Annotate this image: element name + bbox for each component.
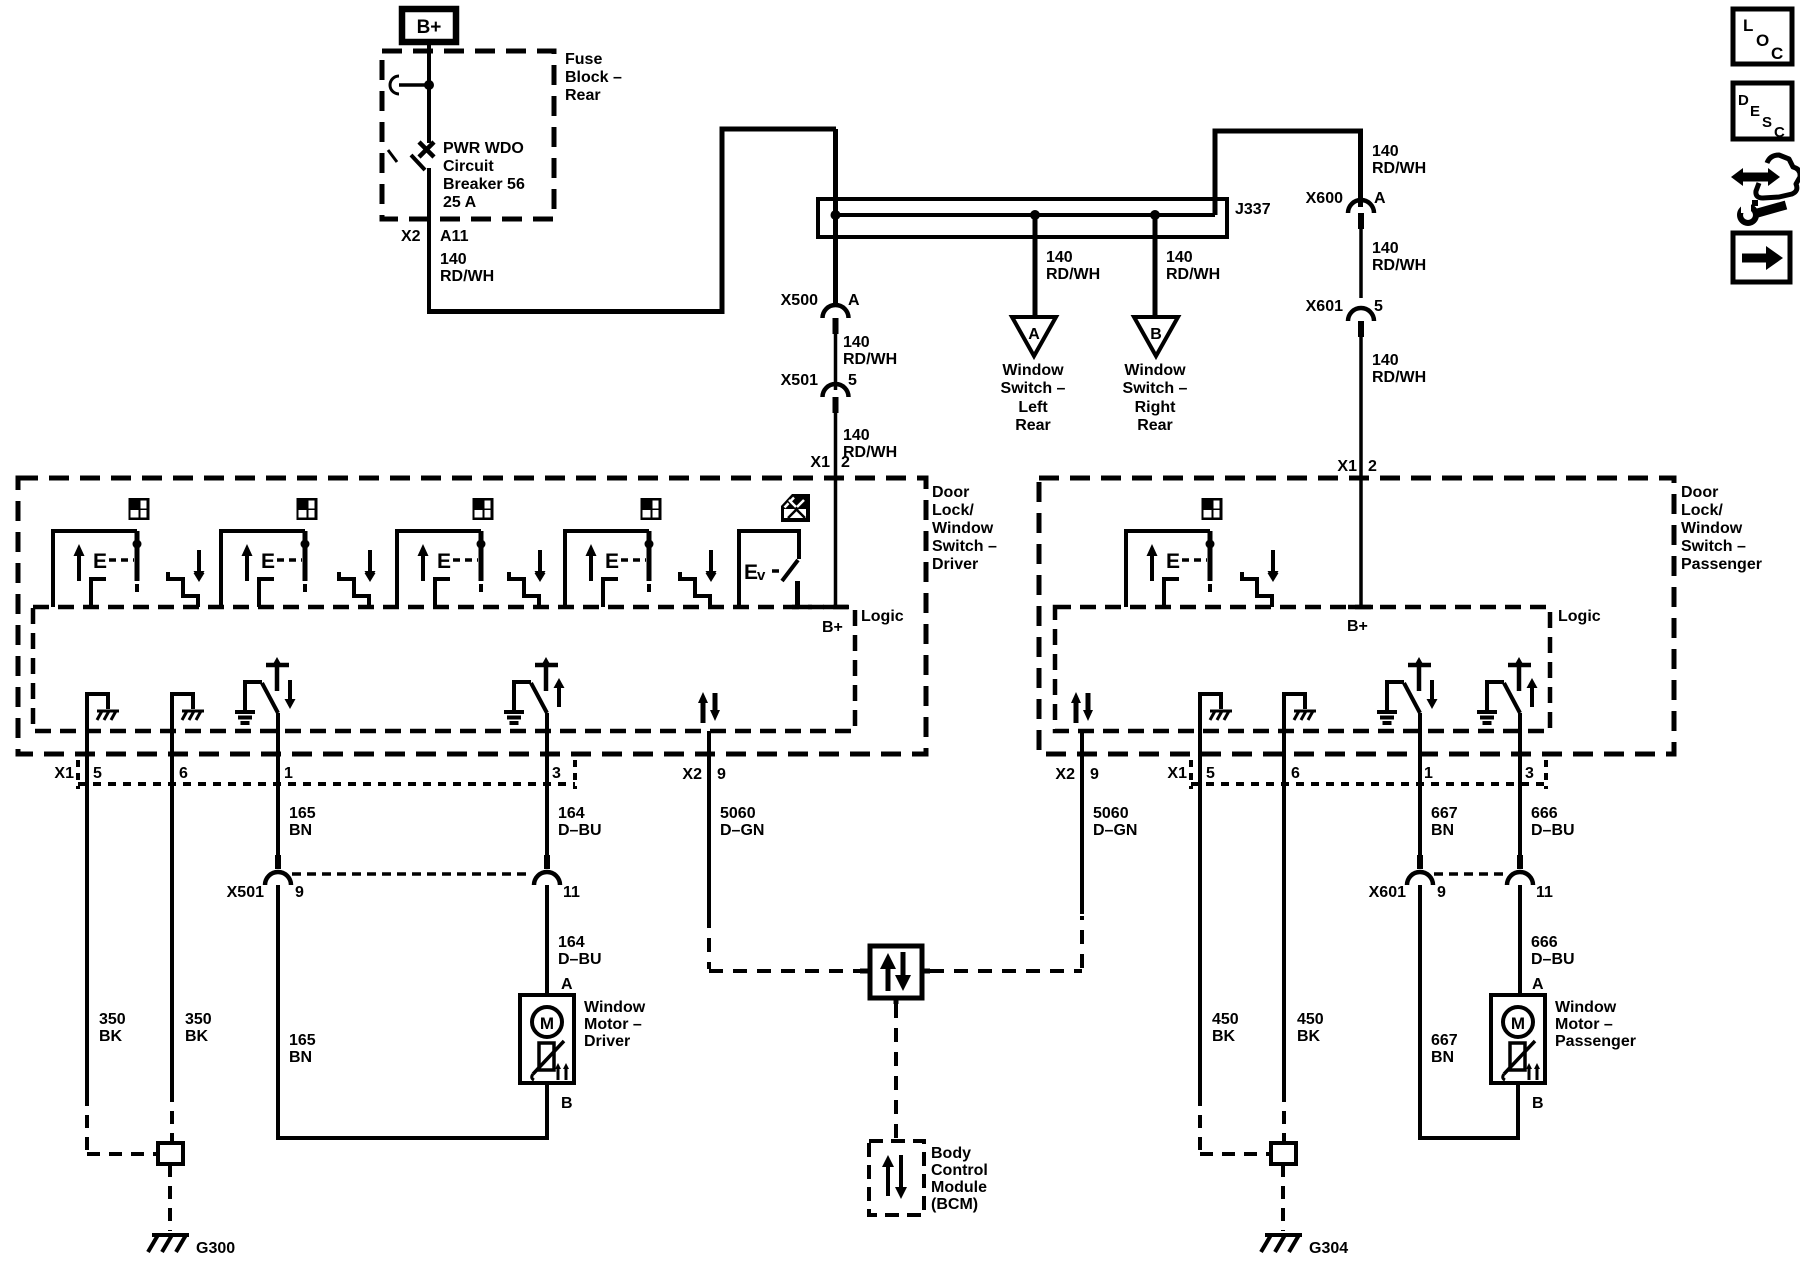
svg-text:Passenger: Passenger — [1555, 1033, 1636, 1050]
wire label 140 RD/WH (into passenger switch) — [1372, 352, 1426, 386]
LOC nav icon box — [1733, 9, 1792, 64]
svg-text:140: 140 — [1046, 249, 1073, 266]
svg-text:X500: X500 — [781, 292, 818, 309]
up arrow (passenger pin 3 switch) — [1527, 678, 1538, 707]
svg-text:RD/WH: RD/WH — [1166, 266, 1220, 283]
down arrow 2 — [365, 552, 376, 581]
connector X500 inline symbol — [823, 305, 849, 334]
svg-text:666: 666 — [1531, 805, 1558, 822]
svg-text:165: 165 — [289, 805, 316, 822]
svg-text:5: 5 — [93, 765, 102, 782]
window down contact 2 — [339, 550, 376, 607]
battery feed B+ terminal — [402, 9, 456, 42]
window down switch contact (driver pin 1) — [235, 657, 289, 723]
wire drop into splice pack — [833, 129, 838, 217]
svg-text:X1: X1 — [1337, 458, 1357, 475]
wire label 140 RD/WH (drop A) — [1046, 249, 1100, 283]
wire 350 BK dashed drop (driver pin5) — [87, 1093, 158, 1154]
svg-text:BK: BK — [1212, 1028, 1236, 1045]
window up switch contact (passenger pin 3) — [1477, 657, 1531, 723]
wire drop to window switch left rear — [1033, 215, 1038, 317]
svg-text:Rear: Rear — [1015, 417, 1051, 434]
serial data arrows (passenger logic) — [1071, 692, 1093, 723]
down arrow 3 — [535, 552, 546, 581]
svg-text:164: 164 — [558, 805, 585, 822]
window down contact 1 — [168, 550, 205, 607]
svg-text:X2: X2 — [401, 228, 421, 245]
page forward nav icon box — [1733, 233, 1790, 282]
svg-text:Door: Door — [1681, 484, 1718, 501]
junction dot left — [831, 210, 841, 220]
svg-text:140: 140 — [1166, 249, 1193, 266]
wire label 667 BN (upper) — [1431, 805, 1458, 839]
svg-text:11: 11 — [1536, 884, 1553, 901]
svg-text:666: 666 — [1531, 934, 1558, 951]
down arrow 1 — [194, 552, 205, 581]
svg-text:3: 3 — [1525, 765, 1534, 782]
svg-text:X600: X600 — [1306, 190, 1343, 207]
wire label 450 BK (pin6) — [1297, 1011, 1324, 1045]
svg-text:2: 2 — [1368, 458, 1377, 475]
svg-text:164: 164 — [558, 934, 585, 951]
window motor driver — [520, 995, 574, 1083]
ground G300 — [148, 1235, 189, 1252]
svg-text:D: D — [1738, 92, 1749, 109]
wire label 5060 D-GN (passenger) — [1093, 805, 1137, 839]
svg-text:1: 1 — [284, 765, 293, 782]
DESC nav icon box — [1733, 83, 1792, 141]
svg-text:X501: X501 — [227, 884, 264, 901]
wire label 140 RD/WH (into driver switch) — [843, 427, 897, 461]
serial data junction box — [860, 946, 930, 1004]
svg-text:2: 2 — [841, 454, 850, 471]
window icon passenger — [1202, 498, 1223, 520]
svg-text:Control: Control — [931, 1162, 988, 1179]
svg-text:Switch –: Switch – — [1681, 538, 1746, 555]
lock switch cell — [739, 531, 812, 607]
svg-text:Door: Door — [932, 484, 969, 501]
window up switch cell 1 — [53, 531, 142, 607]
wire 450 BK pin 5 (passenger) — [1198, 731, 1202, 1093]
connector X601 dashed tie — [1434, 872, 1505, 876]
svg-text:350: 350 — [185, 1011, 212, 1028]
svg-text:RD/WH: RD/WH — [843, 351, 897, 368]
svg-text:Fuse: Fuse — [565, 51, 602, 68]
svg-text:B: B — [1150, 326, 1162, 343]
svg-text:Block –: Block – — [565, 69, 622, 86]
wire label 140 RD/WH (fuse output) — [440, 251, 494, 285]
window icon 4 — [641, 498, 662, 520]
window up switch contact (driver pin 3) — [504, 657, 558, 723]
svg-text:D–GN: D–GN — [1093, 822, 1137, 839]
window down switch contact (passenger pin 1) — [1377, 657, 1431, 723]
svg-text:E: E — [744, 561, 758, 584]
svg-text:Passenger: Passenger — [1681, 556, 1762, 573]
wire label 140 RD/WH (drop B) — [1166, 249, 1220, 283]
wire 450 BK dashed drop (passenger pin5) — [1200, 1093, 1271, 1154]
svg-text:E: E — [1750, 103, 1760, 120]
label Door Lock/Window Switch - Driver — [932, 484, 997, 573]
window motor passenger — [1491, 995, 1545, 1083]
svg-text:B: B — [1532, 1095, 1544, 1112]
connector X501 inline symbol pin 9 — [265, 855, 291, 885]
connector X1 dotted outline (driver bottom) — [78, 760, 575, 789]
svg-text:BN: BN — [1431, 822, 1454, 839]
svg-text:5: 5 — [1374, 298, 1383, 315]
svg-text:J337: J337 — [1235, 201, 1271, 218]
svg-text:S: S — [1762, 114, 1772, 131]
svg-text:140: 140 — [440, 251, 467, 268]
door lock/window switch passenger dashed enclosure — [1039, 478, 1674, 754]
wire 350 BK pin 5 (driver) — [85, 731, 89, 1093]
window up switch cell 3 — [397, 531, 486, 607]
down arrow (driver pin 1 switch) — [285, 680, 296, 709]
wire label 667 BN (lower) — [1431, 1032, 1458, 1066]
wire label 666 D-BU (lower) — [1531, 934, 1575, 968]
door lock/window switch driver dashed enclosure — [18, 478, 926, 754]
svg-text:B+: B+ — [1347, 618, 1368, 635]
B+ terminal foot (driver logic) — [823, 605, 848, 610]
label Window Switch - Right Rear — [1123, 362, 1188, 434]
svg-text:5: 5 — [1206, 765, 1215, 782]
diagnostic nav icon (arrows and wrench) — [1731, 155, 1800, 223]
svg-text:PWR WDO: PWR WDO — [443, 140, 524, 157]
window icon 2 — [297, 498, 318, 520]
svg-text:Lock/: Lock/ — [932, 502, 974, 519]
wire B+ to breaker — [427, 45, 431, 143]
svg-text:Lock/: Lock/ — [1681, 502, 1723, 519]
svg-text:C: C — [1774, 124, 1785, 141]
wire drop to window switch right rear — [1153, 215, 1158, 317]
wire feed run to J337 — [427, 129, 836, 312]
svg-text:C: C — [1771, 44, 1783, 63]
svg-text:Logic: Logic — [1558, 608, 1601, 625]
off-page connector A — [1012, 317, 1056, 356]
svg-text:X2: X2 — [682, 766, 702, 783]
logic block driver dashed box — [33, 607, 855, 731]
wire label 140 RD/WH (right feed top) — [1372, 143, 1426, 177]
junction dot right — [1150, 210, 1160, 220]
wire label 164 D-BU (upper) — [558, 805, 602, 839]
wire label 350 BK (pin6) — [185, 1011, 212, 1045]
svg-text:Switch –: Switch – — [932, 538, 997, 555]
svg-text:140: 140 — [843, 334, 870, 351]
wire 5060 D-GN dashed (driver) — [709, 914, 860, 971]
lock icon — [781, 494, 810, 522]
svg-text:Driver: Driver — [932, 556, 978, 573]
svg-text:11: 11 — [563, 884, 580, 901]
junction dot mid — [1030, 210, 1040, 220]
down arrow (passenger pin 1 switch) — [1427, 680, 1438, 709]
connector X501 dashed tie — [292, 872, 532, 876]
wire label 666 D-BU (upper) — [1531, 805, 1575, 839]
body control module dashed box — [869, 1141, 924, 1215]
dashed wire to G304 — [1281, 1164, 1285, 1231]
svg-text:350: 350 — [99, 1011, 126, 1028]
svg-text:9: 9 — [717, 766, 726, 783]
svg-text:A: A — [1374, 190, 1386, 207]
ground hook pin 5 (passenger) — [1200, 694, 1232, 731]
ground splice box (passenger) — [1271, 1143, 1296, 1164]
connector X601 inline symbol — [1348, 308, 1374, 337]
svg-text:A: A — [1028, 326, 1040, 343]
svg-text:X2: X2 — [1055, 766, 1075, 783]
BCM serial arrows — [882, 1155, 907, 1199]
svg-text:BN: BN — [289, 1049, 312, 1066]
connector X600 inline symbol — [1348, 200, 1374, 229]
svg-text:Window: Window — [1002, 362, 1064, 379]
svg-text:A: A — [1532, 976, 1544, 993]
svg-text:v: v — [757, 567, 766, 584]
svg-text:1: 1 — [1424, 765, 1433, 782]
wire 5060 D-GN (driver X2-9) — [707, 731, 711, 914]
down arrow 4 — [706, 552, 717, 581]
label Body Control Module (BCM) — [931, 1145, 988, 1213]
svg-text:RD/WH: RD/WH — [843, 444, 897, 461]
wire label 450 BK (pin5) — [1212, 1011, 1239, 1045]
svg-text:25 A: 25 A — [443, 194, 477, 211]
circuit breaker 56 symbol — [388, 142, 434, 170]
ground hook pin 6 (passenger) — [1284, 694, 1316, 731]
wire label 350 BK (pin5) — [99, 1011, 126, 1045]
svg-text:D–GN: D–GN — [720, 822, 764, 839]
logic block passenger dashed box — [1055, 607, 1550, 731]
svg-text:RD/WH: RD/WH — [1046, 266, 1100, 283]
splice pack J337 housing — [818, 199, 1227, 237]
connector X501 inline symbol pin 11 — [534, 855, 560, 885]
wire label 140 RD/WH (below X600) — [1372, 240, 1426, 274]
svg-text:165: 165 — [289, 1032, 316, 1049]
svg-text:Logic: Logic — [861, 608, 904, 625]
svg-text:Window: Window — [584, 999, 646, 1016]
svg-text:Window: Window — [1555, 999, 1617, 1016]
wire J337 to X500 — [833, 215, 838, 306]
svg-text:X1: X1 — [54, 765, 74, 782]
svg-text:RD/WH: RD/WH — [1372, 369, 1426, 386]
serial data arrows (driver logic) — [698, 692, 720, 723]
down arrow passenger cell — [1268, 552, 1279, 581]
svg-text:BN: BN — [1431, 1049, 1454, 1066]
connector X601 inline symbol pin 11 — [1507, 855, 1533, 885]
off-page connector B — [1134, 317, 1178, 356]
svg-text:3: 3 — [552, 765, 561, 782]
svg-text:450: 450 — [1212, 1011, 1239, 1028]
label PWR WDO Circuit Breaker 56 25 A — [443, 140, 525, 211]
window down contact 4 — [680, 550, 717, 607]
svg-text:Breaker 56: Breaker 56 — [443, 176, 525, 193]
svg-text:L: L — [1743, 16, 1753, 35]
window down contact passenger — [1242, 550, 1279, 607]
svg-text:6: 6 — [179, 765, 188, 782]
wire 667 BN upper (passenger pin1) — [1418, 713, 1422, 855]
wire label 140 RD/WH (below X500) — [843, 334, 897, 368]
svg-text:O: O — [1756, 31, 1769, 50]
wire 164 D-BU upper (driver pin3) — [545, 713, 549, 855]
wire 450 BK dashed drop (passenger pin6) — [1282, 1089, 1286, 1143]
label Fuse Block - Rear — [565, 51, 622, 104]
window up switch cell 2 — [221, 531, 310, 607]
wire 140 RD/WH into driver switch — [834, 413, 838, 605]
window up switch cell 4 — [565, 531, 654, 607]
wire 350 BK dashed drop (driver pin6) — [170, 1089, 174, 1143]
svg-text:B: B — [561, 1095, 573, 1112]
svg-text:X1: X1 — [1167, 765, 1187, 782]
svg-text:Left: Left — [1018, 399, 1048, 416]
label Window Motor - Passenger — [1555, 999, 1636, 1050]
wire 450 BK pin 6 (passenger) — [1282, 731, 1286, 1089]
svg-text:D–BU: D–BU — [558, 822, 602, 839]
svg-text:Rear: Rear — [565, 87, 601, 104]
svg-text:Switch –: Switch – — [1123, 380, 1188, 397]
label Door Lock/Window Switch - Passenger — [1681, 484, 1762, 573]
connector X501 inline symbol — [823, 384, 849, 413]
svg-text:RD/WH: RD/WH — [440, 268, 494, 285]
svg-text:BK: BK — [1297, 1028, 1321, 1045]
ground hook pin 5 (driver) — [87, 694, 119, 731]
wire label 165 BN (lower) — [289, 1032, 316, 1066]
svg-text:Circuit: Circuit — [443, 158, 494, 175]
svg-text:140: 140 — [843, 427, 870, 444]
svg-text:Motor –: Motor – — [1555, 1016, 1613, 1033]
svg-text:140: 140 — [1372, 240, 1399, 257]
svg-text:BN: BN — [289, 822, 312, 839]
svg-text:A: A — [561, 976, 573, 993]
wire 140 RD/WH X500 to X501 — [834, 334, 838, 390]
svg-text:9: 9 — [1437, 884, 1446, 901]
window icon 3 — [473, 498, 494, 520]
window up switch cell passenger — [1126, 531, 1215, 607]
svg-text:Window: Window — [1124, 362, 1186, 379]
ground splice box (driver) — [158, 1143, 183, 1164]
connector X1 dotted outline (passenger bottom) — [1191, 760, 1546, 789]
svg-text:X501: X501 — [781, 372, 818, 389]
label Window Motor - Driver — [584, 999, 646, 1050]
svg-text:B+: B+ — [822, 619, 843, 636]
svg-text:Window: Window — [1681, 520, 1743, 537]
wire 140 RD/WH into passenger switch — [1359, 337, 1363, 605]
svg-text:Module: Module — [931, 1179, 987, 1196]
label Window Switch - Left Rear — [1001, 362, 1066, 434]
wire label 5060 D-GN (driver) — [720, 805, 764, 839]
svg-text:(BCM): (BCM) — [931, 1196, 978, 1213]
B+ terminal foot (passenger logic) — [1348, 605, 1373, 610]
connector X601 inline symbol pin 9 — [1407, 855, 1433, 885]
window icon 1 — [129, 498, 150, 520]
svg-text:9: 9 — [1090, 766, 1099, 783]
svg-text:Rear: Rear — [1137, 417, 1173, 434]
dashed wire to G300 — [168, 1164, 172, 1231]
svg-text:BK: BK — [99, 1028, 123, 1045]
svg-text:A: A — [848, 292, 860, 309]
svg-text:D–BU: D–BU — [1531, 951, 1575, 968]
wire 667 BN lower run (passenger) — [1418, 885, 1520, 1140]
svg-text:450: 450 — [1297, 1011, 1324, 1028]
wire 666 D-BU upper (passenger pin3) — [1518, 713, 1522, 855]
wire 350 BK pin 6 (driver) — [170, 731, 174, 1089]
ground G304 — [1261, 1235, 1302, 1252]
svg-text:6: 6 — [1291, 765, 1300, 782]
bus tap junction — [390, 76, 434, 94]
window down contact 3 — [509, 550, 546, 607]
splice bus bar — [835, 213, 1215, 217]
svg-text:Window: Window — [932, 520, 994, 537]
svg-text:667: 667 — [1431, 805, 1458, 822]
svg-text:5060: 5060 — [1093, 805, 1129, 822]
wire splice to right feed — [1215, 131, 1361, 215]
svg-text:A11: A11 — [440, 228, 469, 245]
wire 5060 D-GN dashed (passenger side) — [930, 916, 1082, 971]
svg-text:Body: Body — [931, 1145, 971, 1162]
svg-text:140: 140 — [1372, 143, 1399, 160]
svg-text:X1: X1 — [810, 454, 830, 471]
svg-text:BK: BK — [185, 1028, 209, 1045]
svg-text:G304: G304 — [1309, 1240, 1348, 1257]
ground hook pin 6 (driver) — [172, 694, 204, 731]
svg-text:D–BU: D–BU — [1531, 822, 1575, 839]
svg-text:RD/WH: RD/WH — [1372, 160, 1426, 177]
svg-text:Switch –: Switch – — [1001, 380, 1066, 397]
svg-text:D–BU: D–BU — [558, 951, 602, 968]
dashed wire to BCM — [894, 1004, 898, 1141]
wire 165 BN lower run (driver) — [276, 885, 549, 1140]
svg-text:667: 667 — [1431, 1032, 1458, 1049]
wire 140 RD/WH X600 to X601 — [1359, 229, 1363, 298]
svg-text:9: 9 — [295, 884, 304, 901]
svg-text:RD/WH: RD/WH — [1372, 257, 1426, 274]
svg-text:G300: G300 — [196, 1240, 235, 1257]
svg-text:140: 140 — [1372, 352, 1399, 369]
wire breaker to corner — [427, 168, 431, 314]
wire label 164 D-BU (lower) — [558, 934, 602, 968]
wire 164 D-BU into motor — [545, 885, 549, 995]
wire label 165 BN (upper) — [289, 805, 316, 839]
fuse block - rear dashed enclosure — [382, 51, 554, 219]
svg-text:X601: X601 — [1306, 298, 1343, 315]
wire 165 BN upper (driver pin1) — [276, 713, 280, 855]
svg-text:X601: X601 — [1369, 884, 1406, 901]
wire 666 D-BU into motor — [1518, 885, 1522, 995]
svg-text:Right: Right — [1135, 399, 1177, 416]
up arrow (driver pin 3 switch) — [554, 678, 565, 707]
wire 5060 D-GN (passenger X2-9) — [1080, 731, 1084, 914]
svg-text:5060: 5060 — [720, 805, 756, 822]
svg-text:Driver: Driver — [584, 1033, 630, 1050]
svg-text:Motor –: Motor – — [584, 1016, 642, 1033]
svg-text:5: 5 — [848, 372, 857, 389]
svg-text:B+: B+ — [417, 17, 442, 38]
